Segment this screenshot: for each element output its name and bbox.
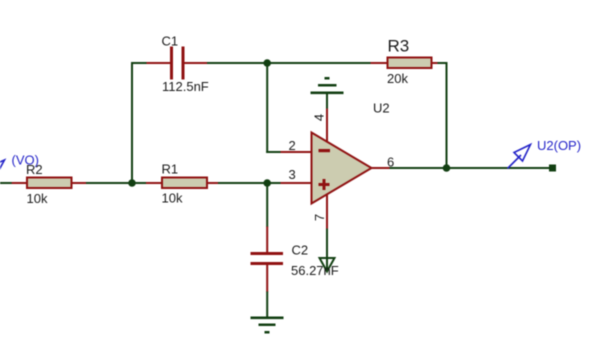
pin 3 red lead bbox=[281, 182, 313, 184]
capacitor C2 bbox=[251, 227, 284, 293]
svg-text:C2: C2 bbox=[292, 243, 309, 258]
node A junction bbox=[128, 179, 136, 187]
voltage probe U2(OP) bbox=[508, 145, 531, 169]
ground symbol below C2 bbox=[251, 317, 284, 334]
wire C1 left horizontal bbox=[131, 62, 147, 64]
resistor R3 bbox=[371, 58, 439, 69]
wire node A up to C1 bbox=[131, 62, 133, 184]
pin 7 red lead bbox=[326, 194, 328, 230]
pin 4 green stub bbox=[326, 94, 328, 109]
op-amp minus symbol bbox=[319, 149, 331, 152]
svg-text:C1: C1 bbox=[162, 34, 179, 49]
svg-text:56.27nF: 56.27nF bbox=[291, 263, 339, 278]
svg-text:10k: 10k bbox=[27, 191, 48, 206]
output terminal square bbox=[549, 165, 556, 172]
svg-text:4: 4 bbox=[312, 114, 327, 121]
resistor R2 bbox=[12, 178, 87, 189]
svg-text:112.5nF: 112.5nF bbox=[162, 79, 209, 94]
svg-text:R1: R1 bbox=[162, 162, 179, 177]
svg-text:3: 3 bbox=[289, 167, 296, 182]
pin 2 red lead bbox=[281, 151, 313, 153]
voltage probe (VO) partial at left edge bbox=[0, 160, 5, 176]
node D junction bbox=[443, 164, 451, 172]
wire R3 to corner bbox=[438, 62, 448, 64]
svg-text:2: 2 bbox=[289, 138, 296, 153]
wire node D to output terminal bbox=[446, 167, 550, 169]
wire R2 to node A bbox=[86, 182, 133, 184]
wire output to node D bbox=[390, 167, 448, 169]
pin 7 green wire bbox=[326, 229, 328, 272]
svg-text:U2(OP): U2(OP) bbox=[537, 138, 581, 153]
op-amp plus symbol bbox=[319, 179, 330, 190]
wire C1 to node B bbox=[207, 62, 268, 64]
node C junction bbox=[263, 179, 271, 187]
ground symbol above op-amp bbox=[311, 77, 344, 94]
capacitor C1 bbox=[147, 47, 208, 80]
wire node C to pin 3 green bbox=[266, 182, 281, 184]
svg-text:10k: 10k bbox=[162, 191, 183, 206]
svg-text:20k: 20k bbox=[387, 71, 408, 86]
wire R1 to node C bbox=[218, 182, 268, 184]
power arrow terminal below op-amp bbox=[320, 258, 335, 272]
wire node B down to pin 2 bbox=[266, 62, 268, 153]
wire corner down to node D bbox=[446, 62, 448, 169]
wire node A to R1 bbox=[131, 182, 147, 184]
node B junction bbox=[263, 59, 271, 67]
pin 6 red output lead bbox=[371, 167, 391, 169]
op-amp U2 triangle bbox=[312, 133, 372, 204]
svg-text:R3: R3 bbox=[388, 37, 410, 56]
svg-text:7: 7 bbox=[312, 214, 327, 221]
pin 4 red lead bbox=[326, 108, 328, 143]
wire pin 2 horizontal green bbox=[266, 151, 281, 153]
wire C2 to ground bbox=[266, 292, 268, 319]
svg-text:U2: U2 bbox=[373, 100, 390, 115]
wire node B to R3 bbox=[266, 62, 372, 64]
wire input to R2 bbox=[0, 182, 13, 184]
wire node C down to C2 bbox=[266, 183, 268, 227]
svg-text:(VO): (VO) bbox=[12, 153, 39, 168]
resistor R1 bbox=[146, 178, 219, 189]
